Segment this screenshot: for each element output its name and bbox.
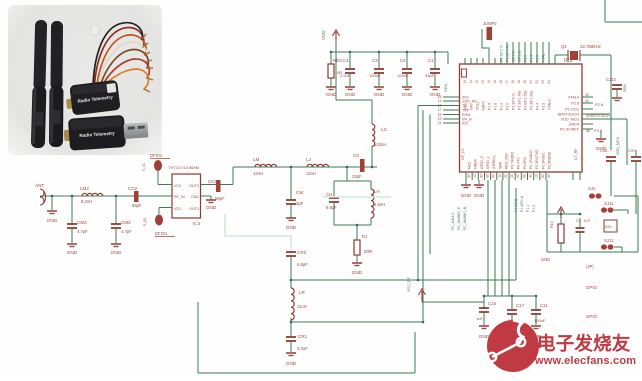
svg-text:LC: LC: [381, 127, 388, 133]
svg-text:LJ: LJ: [306, 157, 311, 162]
svg-text:GPIO: GPIO: [586, 314, 598, 319]
svg-text:REG_DIG: REG_DIG: [504, 153, 508, 169]
svg-text:3(P1.5): 3(P1.5): [512, 51, 516, 62]
svg-text:GND: GND: [111, 250, 122, 256]
svg-text:P1.5: P1.5: [488, 103, 492, 110]
svg-text:NC1: NC1: [464, 103, 468, 110]
svg-text:P2.3(P3.7): P2.3(P3.7): [512, 93, 516, 110]
svg-text:LR: LR: [299, 290, 306, 295]
svg-text:11nH: 11nH: [297, 304, 307, 309]
svg-text:www.elecfans.com: www.elecfans.com: [534, 355, 636, 367]
svg-text:CH: CH: [326, 192, 332, 197]
svg-text:N.F: N.F: [584, 219, 591, 223]
svg-text:C11: C11: [540, 303, 548, 308]
svg-text:GND: GND: [286, 361, 297, 367]
svg-text:P0.7/REF2: P0.7/REF2: [511, 152, 515, 169]
svg-text:17: 17: [438, 108, 442, 112]
svg-text:4.7pF: 4.7pF: [121, 229, 132, 234]
svg-text:C2: C2: [400, 58, 406, 63]
svg-text:GND: GND: [352, 270, 363, 276]
svg-text:13: 13: [438, 99, 442, 103]
svg-text:XTALC: XTALC: [548, 99, 552, 110]
svg-text:C37: C37: [628, 148, 636, 153]
svg-text:OUT2: OUT2: [189, 184, 199, 188]
svg-text:Q1: Q1: [561, 44, 567, 49]
svg-text:3pF: 3pF: [296, 201, 304, 206]
svg-text:P2.0(P1.5G): P2.0(P1.5G): [524, 91, 528, 110]
svg-text:CM3: CM3: [77, 220, 87, 225]
svg-text:C16: C16: [488, 301, 497, 306]
svg-text:6.8pF: 6.8pF: [326, 205, 337, 210]
svg-text:12nH: 12nH: [306, 171, 316, 176]
svg-text:GND0: GND0: [474, 159, 478, 169]
svg-text:C0: C0: [353, 153, 359, 158]
svg-text:00R: 00R: [364, 249, 372, 254]
svg-text:GPIO_1: GPIO_1: [486, 156, 490, 169]
svg-text:P2.7/CU: P2.7/CU: [565, 108, 579, 112]
svg-text:S_IC: S_IC: [142, 163, 146, 171]
svg-text:12: 12: [475, 80, 479, 84]
svg-text:GND4: GND4: [569, 123, 579, 127]
svg-text:FC_AN/MIC_P: FC_AN/MIC_P: [457, 206, 461, 230]
svg-text:CC1: CC1: [208, 179, 218, 184]
svg-text:P0.1RXALD: P0.1RXALD: [529, 150, 533, 169]
svg-text:(UPELL): (UPELL): [492, 156, 496, 169]
svg-text:21: 21: [529, 80, 533, 84]
svg-text:P2.5: P2.5: [542, 103, 546, 110]
svg-text:VDD: VDD: [321, 30, 326, 40]
svg-text:8.2nH: 8.2nH: [81, 199, 92, 204]
svg-text:34: 34: [516, 174, 520, 178]
svg-text:P1.1: P1.1: [526, 205, 530, 212]
svg-text:C4: C4: [343, 58, 349, 63]
svg-text:VC2: VC2: [174, 184, 181, 188]
svg-text:26: 26: [467, 174, 471, 178]
svg-text:2.2uF: 2.2uF: [340, 73, 351, 78]
svg-text:CND: CND: [191, 195, 199, 199]
svg-text:XTAL: XTAL: [542, 53, 546, 62]
svg-text:P2.3(P1.4G): P2.3(P1.4G): [518, 91, 522, 110]
svg-text:20: 20: [523, 80, 527, 84]
svg-text:C26: C26: [600, 148, 608, 153]
svg-text:32: 32: [503, 174, 507, 178]
svg-text:DFIO2: DFIO2: [150, 153, 163, 158]
svg-text:SJ1: SJ1: [588, 186, 596, 191]
svg-text:3NRST/CDCH: 3NRST/CDCH: [586, 114, 610, 118]
svg-text:GND: GND: [47, 218, 58, 224]
svg-text:CP_LC: CP_LC: [461, 148, 465, 160]
svg-text:NJPC: NJPC: [482, 100, 486, 110]
svg-text:LH: LH: [374, 189, 380, 194]
svg-text:P1.6: P1.6: [494, 103, 498, 110]
svg-text:4.7pF: 4.7pF: [77, 229, 88, 234]
svg-text:23: 23: [541, 80, 545, 84]
svg-text:P0.2RXD1: P0.2RXD1: [541, 152, 545, 169]
svg-text:R15: R15: [550, 221, 554, 228]
svg-text:56pF: 56pF: [132, 203, 142, 208]
svg-text:CR2: CR2: [297, 250, 307, 255]
svg-text:56pF: 56pF: [215, 196, 225, 201]
svg-text:GPIO: GPIO: [586, 285, 598, 290]
svg-text:FC_A/N2.2: FC_A/N2.2: [451, 213, 455, 230]
svg-text:14: 14: [487, 80, 491, 84]
svg-text:CC2: CC2: [128, 186, 138, 191]
svg-text:P2.5: P2.5: [536, 55, 540, 62]
svg-text:IC4: IC4: [193, 221, 201, 226]
svg-text:21: 21: [438, 121, 442, 125]
svg-text:DFIO1: DFIO1: [155, 231, 168, 236]
svg-text:CJ13: CJ13: [606, 77, 616, 82]
svg-text:31: 31: [497, 174, 501, 178]
svg-text:120nH: 120nH: [374, 142, 386, 147]
svg-text:15: 15: [493, 80, 497, 84]
svg-text:XIN: XIN: [470, 104, 474, 110]
svg-text:GJ11: GJ11: [604, 201, 614, 206]
svg-text:30: 30: [491, 174, 495, 178]
svg-text:VCC_RF: VCC_RF: [407, 276, 411, 292]
svg-text:P2.4: P2.4: [530, 55, 534, 62]
svg-text:100nF: 100nF: [397, 73, 409, 78]
svg-text:TH7107/14 868M: TH7107/14 868M: [168, 165, 199, 170]
svg-text:XCL1: XCL1: [476, 101, 480, 110]
svg-text:13: 13: [481, 80, 485, 84]
svg-text:41: 41: [585, 99, 589, 103]
svg-text:C1: C1: [576, 218, 582, 223]
svg-text:C17: C17: [516, 303, 525, 308]
svg-text:P0.3RXTXD: P0.3RXTXD: [535, 149, 539, 169]
svg-text:GPIO_0: GPIO_0: [480, 156, 484, 169]
svg-text:C3: C3: [372, 58, 378, 63]
svg-text:5.6nH: 5.6nH: [374, 202, 385, 207]
svg-text:FC_AN/MIC_N: FC_AN/MIC_N: [463, 206, 467, 230]
svg-text:16: 16: [499, 80, 503, 84]
svg-text:R1: R1: [362, 234, 368, 239]
svg-text:SDN: SDN: [623, 84, 627, 92]
svg-text:36: 36: [528, 174, 532, 178]
svg-text:(JP): (JP): [586, 264, 594, 269]
svg-text:10: 10: [463, 80, 467, 84]
svg-text:P3.0: P3.0: [594, 128, 603, 133]
svg-text:CR1: CR1: [298, 334, 308, 339]
svg-text:CM2: CM2: [121, 220, 131, 225]
svg-text:GND: GND: [474, 193, 485, 199]
svg-text:GND: GND: [461, 193, 472, 199]
svg-text:P0.4TX: P0.4TX: [517, 157, 521, 169]
svg-text:LM2: LM2: [80, 186, 89, 191]
svg-text:ANT: ANT: [35, 183, 44, 188]
svg-text:11: 11: [469, 80, 473, 84]
svg-text:P2.6: P2.6: [595, 102, 603, 107]
svg-text:19: 19: [517, 80, 521, 84]
svg-text:GND: GND: [345, 92, 356, 98]
svg-text:33: 33: [510, 174, 514, 178]
svg-text:VC1: VC1: [174, 207, 181, 211]
svg-text:P2.3(P1.6G): P2.3(P1.6G): [530, 91, 534, 110]
svg-text:IO2: IO2: [462, 122, 468, 126]
svg-text:18: 18: [438, 113, 442, 117]
svg-text:39: 39: [546, 174, 550, 178]
svg-text:3.3uF: 3.3uF: [297, 346, 308, 351]
svg-text:NO2: NO2: [468, 162, 472, 169]
svg-text:GND: GND: [541, 257, 550, 262]
svg-text:18: 18: [511, 80, 515, 84]
svg-text:P1.0: P1.0: [532, 205, 536, 212]
svg-text:RDC: RDC: [333, 58, 343, 63]
svg-text:P1.2: P1.2: [500, 103, 504, 110]
svg-text:100nF: 100nF: [369, 73, 381, 78]
svg-text:SDN: SDN: [443, 83, 448, 92]
svg-text:P2.4: P2.4: [536, 103, 540, 110]
svg-text:P2.3(P1.4): P2.3(P1.4): [506, 45, 510, 62]
svg-text:100nF: 100nF: [534, 318, 546, 323]
svg-text:22: 22: [535, 80, 539, 84]
svg-text:6.8pF: 6.8pF: [297, 262, 308, 267]
svg-text:35: 35: [522, 174, 526, 178]
svg-text:JUMP2: JUMP2: [483, 21, 497, 26]
svg-text:GND: GND: [374, 92, 385, 98]
svg-text:E26: E26: [605, 225, 611, 229]
svg-text:GND: GND: [286, 225, 297, 231]
svg-text:P0.6RX: P0.6RX: [523, 156, 527, 169]
svg-text:GND: GND: [67, 250, 78, 256]
svg-text:RF_IN: RF_IN: [174, 195, 185, 199]
svg-text:GND: GND: [402, 92, 413, 98]
svg-text:CM: CM: [296, 190, 303, 195]
svg-text:28: 28: [479, 174, 483, 178]
svg-text:38: 38: [540, 174, 544, 178]
svg-text:37: 37: [534, 174, 538, 178]
svg-text:3(P1.6): 3(P1.6): [518, 51, 522, 62]
svg-text:24: 24: [547, 80, 551, 84]
svg-text:VDD_MCU: VDD_MCU: [616, 136, 620, 155]
svg-text:SJ12: SJ12: [604, 238, 614, 243]
svg-text:33pF: 33pF: [352, 174, 362, 179]
svg-text:32.768kHz: 32.768kHz: [580, 44, 601, 49]
svg-text:17: 17: [505, 80, 509, 84]
svg-text:GND: GND: [206, 205, 217, 211]
svg-text:P2.3: P2.3: [524, 55, 528, 62]
svg-text:36: 36: [586, 129, 590, 133]
svg-text:29: 29: [485, 174, 489, 178]
svg-text:XTAL4: XTAL4: [568, 96, 579, 100]
svg-text:S_IO: S_IO: [143, 218, 147, 226]
svg-text:P2.0: P2.0: [506, 103, 510, 110]
svg-text:LM: LM: [253, 157, 260, 162]
svg-text:1uF: 1uF: [476, 316, 483, 321]
svg-text:P1.3/NC: P1.3/NC: [514, 198, 518, 212]
svg-text:VBR: VBR: [498, 161, 502, 169]
svg-text:P0.5NEND: P0.5NEND: [547, 151, 551, 169]
svg-text:P2.6: P2.6: [571, 102, 579, 106]
svg-text:OUT1: OUT1: [189, 207, 199, 211]
svg-text:C7_RF: C7_RF: [574, 148, 578, 160]
svg-text:12nH: 12nH: [253, 171, 263, 176]
svg-text:RXM: RXM: [462, 113, 470, 117]
svg-text:P2.3(P3.7): P2.3(P3.7): [500, 45, 504, 62]
svg-text:P1.4/FC.A: P1.4/FC.A: [520, 195, 524, 212]
svg-text:PC.6/VREF: PC.6/VREF: [560, 128, 580, 132]
svg-text:33pF: 33pF: [425, 73, 435, 78]
svg-text:电子发烧友: 电子发烧友: [537, 333, 631, 354]
svg-text:NRST/G2CH: NRST/G2CH: [558, 113, 580, 117]
svg-text:VDD_MCU: VDD_MCU: [561, 118, 580, 122]
svg-text:42: 42: [585, 93, 589, 97]
svg-text:27: 27: [473, 174, 477, 178]
svg-text:C1: C1: [428, 58, 434, 63]
svg-text:GND: GND: [326, 92, 337, 98]
